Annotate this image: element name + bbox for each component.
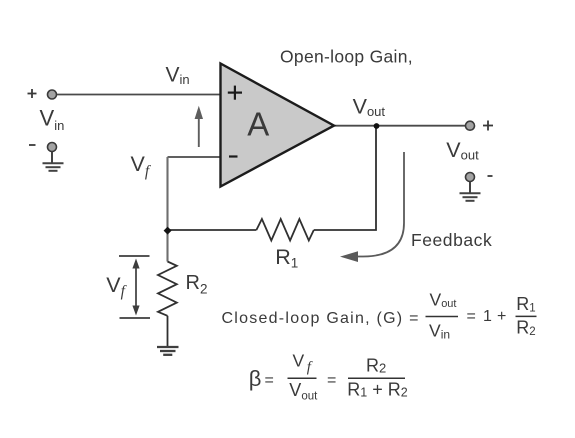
svg-text:Open-loop Gain,: Open-loop Gain, bbox=[280, 47, 413, 67]
svg-text:Closed-loop Gain, (G) =: Closed-loop Gain, (G) = bbox=[222, 310, 420, 327]
svg-text:R1 + R2: R1 + R2 bbox=[347, 380, 407, 400]
svg-text:=: = bbox=[327, 372, 336, 389]
svg-text:+: + bbox=[497, 308, 506, 325]
svg-text:=: = bbox=[265, 372, 274, 389]
svg-text:Feedback: Feedback bbox=[411, 230, 492, 250]
svg-text:β: β bbox=[249, 366, 262, 391]
svg-text:=: = bbox=[467, 308, 476, 325]
svg-text:A: A bbox=[247, 106, 269, 143]
svg-text:1: 1 bbox=[483, 308, 492, 325]
